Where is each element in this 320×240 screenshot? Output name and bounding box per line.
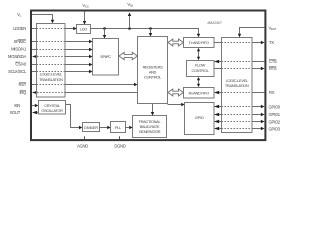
wire IRQ with out arrow: [32, 91, 37, 94]
AGND pin stub: [84, 136, 86, 139]
svg-text:SPI/I²C: SPI/I²C: [100, 54, 111, 59]
svg-text:GENERATOR: GENERATOR: [139, 129, 161, 134]
Tx FIFO block: [184, 38, 215, 48]
wire MISO/A1: [32, 49, 37, 51]
bidir bus arrow registers to Rx FIFO: [168, 89, 183, 96]
svg-text:GPIO1: GPIO1: [269, 112, 281, 117]
svg-text:TX: TX: [269, 40, 274, 45]
registers and control block: [138, 37, 168, 104]
svg-text:GPIO3: GPIO3: [269, 126, 281, 131]
node junction to SPI/I2C: [103, 27, 106, 30]
chip outer border: [31, 11, 265, 141]
wire MOSI/SDA with out arrow: [32, 55, 37, 58]
svg-text:LDOEN: LDOEN: [13, 26, 26, 31]
node junction to V18 pin: [128, 27, 131, 30]
wire SCLK/SCL: [32, 71, 37, 73]
svg-text:GPIO0: GPIO0: [269, 104, 281, 109]
GPIO block: [185, 103, 215, 135]
svg-text:AGND: AGND: [77, 143, 88, 148]
svg-text:RX: RX: [269, 90, 275, 95]
svg-text:CS/A0: CS/A0: [15, 62, 27, 67]
bidir arrow Tx FIFO / flow control: [198, 50, 200, 59]
svg-text:RTS: RTS: [269, 66, 277, 71]
svg-text:CONTROL: CONTROL: [144, 75, 162, 80]
wire SPI/I2C select: [32, 41, 37, 43]
svg-text:GPIO2: GPIO2: [269, 119, 281, 124]
wire registers to GPIO: [168, 104, 182, 106]
svg-text:XIN: XIN: [14, 103, 20, 108]
svg-text:VL: VL: [17, 12, 22, 18]
svg-text:VEXT: VEXT: [269, 25, 277, 31]
svg-text:CTS: CTS: [269, 59, 277, 64]
PLL block: [111, 122, 126, 133]
wire XIN: [32, 105, 35, 107]
wire CS/A0: [32, 64, 37, 66]
svg-text:TRANSLATION: TRANSLATION: [225, 83, 249, 88]
svg-text:LDO: LDO: [80, 27, 87, 32]
wire PLL to frac gen: [126, 127, 130, 129]
svg-text:RST: RST: [19, 82, 27, 87]
wire GPIO3 bidir: [214, 127, 219, 130]
wire TX out: [214, 42, 222, 44]
svg-text:SPI/I2C: SPI/I2C: [14, 39, 27, 44]
wire XOUT with out arrow: [32, 111, 37, 114]
crystal oscillator block: [39, 101, 66, 115]
svg-text:V18: V18: [127, 2, 133, 8]
bidir bus arrow registers to Tx FIFO: [168, 39, 183, 46]
wire GPIO0 bidir: [214, 105, 219, 108]
svg-text:XOUT: XOUT: [10, 110, 21, 115]
svg-text:MISO/A1: MISO/A1: [11, 47, 27, 52]
svg-text:GPIO: GPIO: [195, 115, 204, 120]
svg-text:TRANSLATION: TRANSLATION: [39, 77, 63, 82]
wire GPIO2 bidir: [214, 120, 219, 123]
svg-text:SCLK/SCL: SCLK/SCL: [8, 69, 27, 74]
divider block: [83, 123, 100, 132]
LDO regulator: [77, 25, 91, 34]
wire CTS in: [214, 60, 219, 63]
svg-text:MOSI/SDA: MOSI/SDA: [8, 54, 27, 59]
SPI/I2C interface block: [93, 39, 119, 76]
wire VEXT into right translator: [240, 28, 265, 35]
DGND pin stub: [119, 136, 121, 139]
flow control block: [187, 61, 215, 77]
wire registers to frac gen: [152, 104, 154, 113]
right logic-level translation block: [222, 38, 253, 133]
LDO output rail V18 net: [91, 29, 199, 34]
wire divider to PLL: [100, 127, 108, 129]
wire LDOEN to LDO: [32, 28, 37, 30]
bidir arrow flow control / Rx FIFO: [198, 79, 200, 86]
svg-text:OSCILLATOR: OSCILLATOR: [41, 108, 63, 113]
wire crystal osc to divider: [66, 105, 80, 128]
svg-text:Tx AND FIFO: Tx AND FIFO: [189, 40, 209, 45]
wire RX in: [214, 91, 219, 94]
svg-text:DGND: DGND: [114, 143, 125, 148]
svg-text:DIVIDER: DIVIDER: [84, 125, 98, 130]
Rx FIFO block: [184, 88, 215, 99]
node junction to registers: [149, 27, 152, 30]
wire RTS out: [214, 68, 222, 70]
left logic-level translation block: [37, 24, 66, 98]
fractional baud-rate generator block: [133, 116, 167, 138]
svg-text:Rx AND FIFO: Rx AND FIFO: [188, 90, 209, 95]
wire VCC into LDO: [84, 12, 86, 22]
bidir bus arrow SPI to registers: [119, 52, 137, 59]
svg-text:MAX3107: MAX3107: [208, 21, 222, 25]
svg-text:IRQ: IRQ: [19, 90, 27, 95]
wire VL: [32, 15, 53, 21]
wire RST: [32, 84, 37, 86]
wire GPIO1 bidir: [214, 113, 219, 116]
svg-text:CONTROL: CONTROL: [192, 68, 210, 73]
